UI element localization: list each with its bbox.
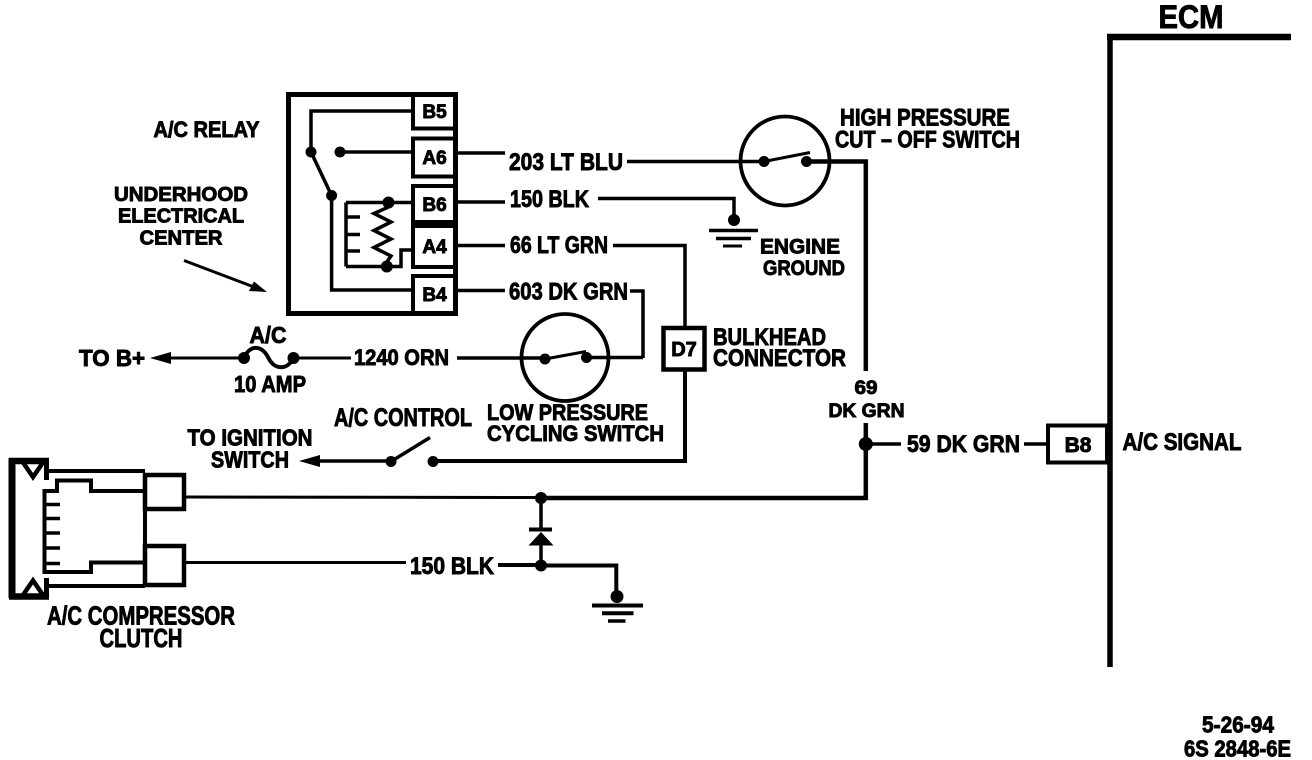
arrow to ignition switch xyxy=(299,455,320,467)
svg-text:CYCLING SWITCH: CYCLING SWITCH xyxy=(487,421,664,446)
wire HP switch to junction and down to clutch feed xyxy=(807,162,866,372)
wire control switch to bulkhead connector xyxy=(433,459,687,463)
svg-text:150 BLK: 150 BLK xyxy=(510,186,590,213)
svg-text:A/C CONTROL: A/C CONTROL xyxy=(334,404,472,432)
relay coil L1 xyxy=(346,203,360,267)
node engine ground dot xyxy=(728,214,740,226)
wire D7 down to control switch xyxy=(683,370,687,461)
svg-text:ELECTRICAL: ELECTRICAL xyxy=(118,206,244,228)
svg-text:B4: B4 xyxy=(422,285,447,306)
ECM terminal B8 box xyxy=(1048,426,1107,463)
label ENGINE GROUND xyxy=(760,236,845,281)
A/C compressor clutch pulley bracket xyxy=(9,458,49,598)
label HIGH PRESSURE CUT-OFF SWITCH xyxy=(835,105,1020,154)
low pressure cycling switch S2 xyxy=(522,314,609,401)
svg-text:A6: A6 xyxy=(422,148,446,169)
svg-text:69: 69 xyxy=(855,378,878,399)
arrow underhood electrical center xyxy=(184,261,267,293)
node diode bottom junction xyxy=(535,560,547,572)
LP switch blade xyxy=(545,352,586,360)
node switch stationary contact xyxy=(335,147,346,158)
clutch coil body xyxy=(45,481,145,573)
clutch terminal bottom box xyxy=(145,546,184,585)
svg-text:UNDERHOOD: UNDERHOOD xyxy=(114,184,248,206)
svg-text:603 DK GRN: 603 DK GRN xyxy=(509,279,628,306)
wire A4 stub xyxy=(458,244,505,248)
svg-text:150 BLK: 150 BLK xyxy=(410,553,495,580)
label UNDERHOOD ELECTRICAL CENTER xyxy=(114,184,248,250)
wire 69 DK GRN lower segment xyxy=(539,423,866,498)
wire 203 LT BLU to high pressure switch xyxy=(627,160,766,164)
svg-text:CLUTCH: CLUTCH xyxy=(100,623,183,653)
resistor R1 across coil xyxy=(374,204,391,265)
svg-text:DK GRN: DK GRN xyxy=(829,401,905,422)
node junction 69 DK GRN xyxy=(859,437,873,451)
label BULKHEAD CONNECTOR xyxy=(713,324,846,372)
svg-text:SWITCH: SWITCH xyxy=(211,447,289,473)
clutch terminal top box xyxy=(145,475,184,509)
svg-text:6S 2848-6E: 6S 2848-6E xyxy=(1184,736,1291,760)
node ground dot xyxy=(611,590,624,603)
node diode top junction xyxy=(535,492,547,504)
wire 66 LT GRN to bulkhead connector xyxy=(613,246,685,329)
label LOW PRESSURE CYCLING SWITCH xyxy=(487,400,664,446)
svg-text:A/C SIGNAL: A/C SIGNAL xyxy=(1123,429,1242,456)
node HP switch right contact xyxy=(801,156,812,167)
svg-text:B5: B5 xyxy=(422,102,447,123)
wire B4 stub xyxy=(458,289,505,293)
node blade end xyxy=(326,190,337,201)
node coil bottom xyxy=(381,261,393,273)
wire B5 to switch pivot xyxy=(311,111,411,147)
relay switch blade xyxy=(311,152,332,196)
engine ground symbol xyxy=(709,231,758,247)
svg-text:B6: B6 xyxy=(422,195,446,216)
node coil top xyxy=(383,197,395,209)
diode CR1 xyxy=(529,498,554,566)
svg-text:CENTER: CENTER xyxy=(140,228,224,250)
fuse F1 A/C 10 AMP xyxy=(238,348,300,367)
wire stationary contact to A6 xyxy=(340,150,411,154)
svg-text:A4: A4 xyxy=(422,237,447,258)
svg-text:1240 ORN: 1240 ORN xyxy=(354,345,449,370)
relay terminal B5 xyxy=(413,95,456,129)
label TO IGNITION SWITCH xyxy=(188,425,313,473)
label A/C COMPRESSOR CLUTCH xyxy=(47,601,235,654)
wire 603 DK GRN hook down to cycling switch xyxy=(630,291,643,358)
svg-text:ECM: ECM xyxy=(1159,0,1224,35)
node HP switch left contact xyxy=(759,156,770,167)
wire 150 BLK to engine ground xyxy=(598,199,734,217)
node LP switch right contact xyxy=(581,352,592,363)
wire LP switch to 603 hook xyxy=(587,356,644,360)
relay terminal A6 xyxy=(413,139,456,177)
wire 59 DK GRN to B8 xyxy=(1024,442,1048,446)
wire fuse to 1240 ORN xyxy=(299,357,351,360)
bulkhead connector D7 box xyxy=(664,328,705,370)
node switch pivot xyxy=(306,147,317,158)
wire junction to 59 DK GRN label xyxy=(872,442,901,446)
relay terminal B4 xyxy=(413,276,456,313)
clutch housing bottom line xyxy=(47,584,146,588)
svg-text:10 AMP: 10 AMP xyxy=(234,371,306,397)
svg-text:66 LT GRN: 66 LT GRN xyxy=(510,232,608,259)
wire clutch feed top (thin left segment) xyxy=(186,496,541,500)
label 69 DK GRN xyxy=(829,378,905,422)
clutch housing top line xyxy=(47,469,146,473)
ECM module U1 outline xyxy=(1107,34,1291,667)
svg-text:ENGINE: ENGINE xyxy=(760,236,840,259)
control switch blade xyxy=(391,438,430,462)
relay terminal B6 xyxy=(413,186,456,222)
wire coil bottom to A4 xyxy=(346,250,411,267)
high pressure cut-off switch S1 xyxy=(741,117,830,206)
wire clutch return (left segment) xyxy=(186,561,406,564)
svg-text:GROUND: GROUND xyxy=(763,257,845,280)
wire arrow to fuse xyxy=(166,357,244,360)
wire B6 stub xyxy=(458,200,505,204)
arrow to B+ xyxy=(150,352,171,364)
wire between clutch terminals xyxy=(143,509,147,546)
svg-text:A/C RELAY: A/C RELAY xyxy=(154,117,260,142)
svg-text:TO B+: TO B+ xyxy=(79,345,145,371)
wire A6 stub xyxy=(458,151,505,155)
svg-text:59 DK GRN: 59 DK GRN xyxy=(907,431,1020,458)
wire 150 BLK to ground xyxy=(498,565,616,592)
node control switch left contact xyxy=(386,456,397,467)
clutch coil winding teeth xyxy=(45,505,61,564)
svg-text:5-26-94: 5-26-94 xyxy=(1202,712,1274,738)
wire coil top to B6 xyxy=(346,201,411,205)
svg-text:A/C: A/C xyxy=(250,322,287,348)
svg-text:203 LT BLU: 203 LT BLU xyxy=(509,149,623,176)
A/C relay K1 outer box xyxy=(289,95,456,314)
svg-text:D7: D7 xyxy=(671,339,697,361)
HP switch blade xyxy=(764,153,810,162)
node LP switch left contact xyxy=(540,354,551,365)
wire arrow to control switch xyxy=(315,459,391,463)
node control switch right contact xyxy=(428,456,439,467)
ground symbol lower xyxy=(592,606,643,622)
relay terminal A4 xyxy=(413,226,456,267)
svg-text:CUT – OFF SWITCH: CUT – OFF SWITCH xyxy=(835,127,1020,154)
svg-text:B8: B8 xyxy=(1065,434,1092,457)
svg-text:CONNECTOR: CONNECTOR xyxy=(713,345,846,372)
wire 1240 ORN to cycling switch xyxy=(457,356,545,360)
wire blade to B4 xyxy=(332,196,411,291)
